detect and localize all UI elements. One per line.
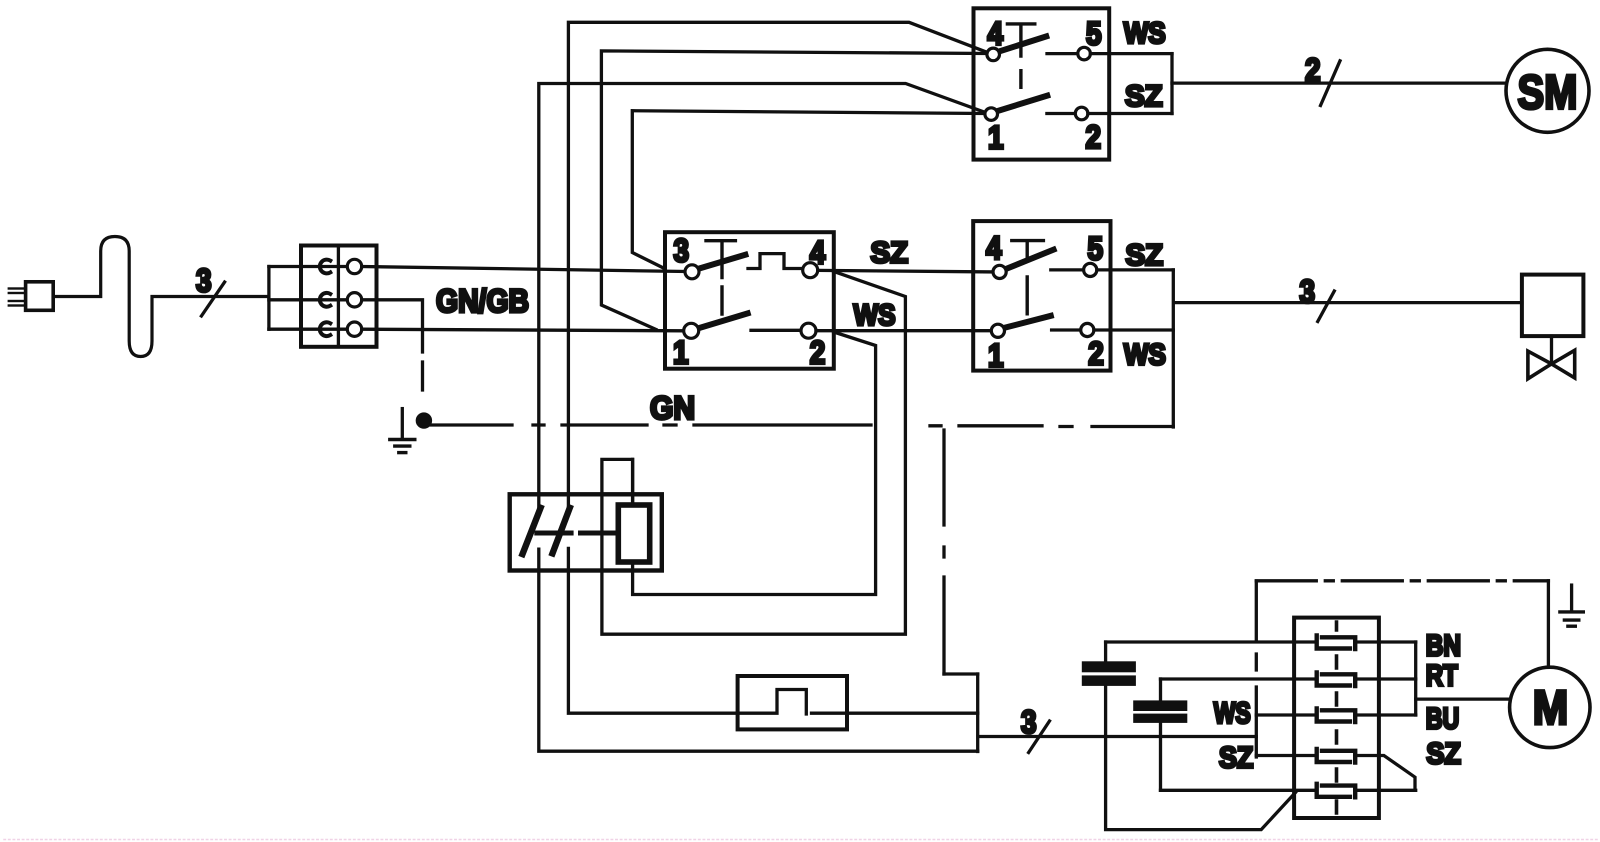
suppressor switch blade 2	[553, 508, 570, 554]
svg-text:SZ: SZ	[1125, 80, 1163, 113]
wire RT row	[1161, 677, 1416, 680]
label 3-core valve cable mark	[1300, 273, 1335, 321]
wire SZ S2 pin4 to S3 pin4	[818, 270, 993, 272]
suppressor link bar	[537, 531, 571, 536]
svg-text:5: 5	[1088, 231, 1104, 267]
wire PE row to terminal	[269, 298, 348, 301]
connector contact 5	[1317, 784, 1356, 798]
wire N feed to timer switch contact 1	[362, 329, 684, 331]
svg-text:2: 2	[1088, 336, 1104, 372]
svg-text:SZ: SZ	[1426, 738, 1461, 771]
svg-text:3: 3	[674, 233, 690, 269]
connector contact 1	[1317, 636, 1356, 650]
wire 2-core cable to SM	[1172, 81, 1508, 84]
wire C2 bottom lead to connector row5	[1106, 686, 1296, 830]
wire 3-core cable to motor group	[978, 735, 1256, 738]
timer/program module box	[738, 676, 847, 729]
ground symbol at motor frame	[1560, 585, 1583, 626]
wire C3 bottom lead to row5	[1159, 723, 1162, 790]
S3 contact 4	[993, 265, 1006, 278]
S3 upper fixed lead	[1051, 268, 1084, 271]
svg-text:1: 1	[988, 337, 1004, 373]
wire SZ row with dogleg	[1256, 756, 1415, 791]
S1 upper fixed lead	[1047, 52, 1078, 55]
wire S3 pin2 to valve cable bracket	[1094, 328, 1173, 331]
label 3-core motor cable mark	[1021, 704, 1050, 753]
svg-text:GN/GB: GN/GB	[436, 283, 529, 319]
svg-text:3: 3	[196, 262, 212, 298]
svg-text:M: M	[1533, 682, 1569, 735]
svg-text:2: 2	[810, 335, 826, 371]
label 3-core cable mark	[196, 262, 225, 316]
S2 contact 4	[803, 263, 818, 278]
label 2-core cable mark	[1305, 52, 1340, 106]
svg-text:SZ: SZ	[1219, 742, 1253, 775]
S1 lower fixed lead	[1047, 112, 1075, 115]
terminal circle row3	[347, 322, 361, 336]
S3 contact 2	[1081, 323, 1094, 336]
S1 lower moving contact 1	[985, 108, 998, 121]
S2 contact 2	[801, 323, 816, 338]
wire loop C: main switch contact 1 down to bottom cable line	[539, 84, 986, 752]
main switch S1 box	[974, 8, 1110, 159]
mains plug X1	[8, 282, 54, 311]
S2 actuator button	[706, 241, 735, 314]
S3 actuator button	[1012, 241, 1044, 314]
connector contact 3	[1317, 709, 1356, 723]
wire GN dash-dot run to right	[431, 425, 1173, 427]
wire 3-core cable to valve	[1175, 301, 1522, 304]
S1 upper contact arm	[999, 36, 1046, 51]
svg-text:2: 2	[1086, 119, 1102, 155]
S3 lower contact arm	[1004, 316, 1051, 328]
svg-text:3: 3	[1021, 704, 1037, 740]
wire GN/GB earth drop (dash-dot)	[362, 300, 423, 390]
svg-text:3: 3	[1300, 273, 1316, 309]
connector contact 4	[1317, 749, 1356, 763]
svg-text:BU: BU	[1426, 702, 1460, 735]
capacitor C1 (suppressor)	[618, 505, 649, 562]
S2 pin2 fixed lead	[751, 329, 801, 332]
node cable fan-out bracket at terminal block	[267, 267, 270, 330]
wire C2 top lead to BN row	[1104, 642, 1107, 661]
svg-text:WS: WS	[854, 299, 896, 332]
svg-text:SZ: SZ	[1126, 239, 1164, 272]
svg-text:1: 1	[673, 335, 689, 371]
svg-text:WS: WS	[1214, 697, 1251, 730]
S3 upper contact arm	[1006, 250, 1054, 269]
motor frame dash-dot boundary left	[1255, 581, 1258, 670]
terminal hook pin row3	[320, 322, 330, 336]
wire WS S2 pin2 to S3 pin1	[816, 329, 991, 332]
node earth junction	[416, 412, 432, 428]
S3 lower fixed lead	[1052, 328, 1081, 331]
wire motor earth to M	[1547, 581, 1550, 668]
S1 upper moving contact 4	[987, 48, 1000, 61]
wire C3 top lead to RT row	[1159, 679, 1162, 700]
terminal circle row1	[347, 259, 361, 273]
terminal circle row2	[347, 293, 361, 307]
svg-text:GN: GN	[650, 390, 695, 426]
S2 contact 3	[685, 265, 699, 279]
wire L feed to timer switch contact 3	[362, 267, 685, 272]
S2 contact 1	[684, 323, 699, 338]
svg-text:2: 2	[1305, 52, 1321, 88]
wire GN dash-dot branch down to motor cable	[942, 430, 945, 674]
connector contact 2	[1317, 673, 1356, 687]
wire loop D: main switch contact 1 down to timer switch contact 3	[632, 111, 985, 268]
svg-text:4: 4	[988, 16, 1004, 52]
node motor cable bracket	[1255, 687, 1258, 757]
timer switch S2 box	[665, 232, 834, 369]
wire L row to terminal	[269, 265, 348, 268]
S1 lower contact arm	[997, 96, 1048, 112]
S3 contact 5	[1084, 263, 1097, 276]
wire S3 pin5 to valve cable bracket	[1097, 268, 1173, 271]
terminal block X2	[301, 246, 377, 347]
wire S1 pin2 to cable bracket	[1088, 112, 1172, 115]
svg-text:WS: WS	[1124, 17, 1166, 50]
S1 contact 2	[1075, 107, 1088, 120]
motor SM (program/servo motor)	[1506, 49, 1589, 132]
terminal hook pin row2	[320, 293, 330, 307]
ground PE symbol	[390, 409, 415, 453]
S1 contact 5	[1078, 47, 1091, 60]
S2 pulse cam symbol and pin4 lead	[748, 254, 803, 269]
S2 upper contact arm	[699, 255, 746, 269]
svg-text:BN: BN	[1426, 630, 1461, 663]
S1 actuator button	[1007, 24, 1034, 87]
capacitor C2	[1082, 661, 1136, 686]
svg-text:5: 5	[1086, 15, 1102, 51]
interference suppressor box	[510, 494, 662, 570]
wire right bus BN/RT/BU	[1414, 642, 1417, 715]
suppressor link dash to capacitor	[581, 531, 616, 536]
wire S1 pin5 to cable bracket	[1090, 52, 1172, 55]
svg-text:RT: RT	[1426, 660, 1458, 693]
suppressor loop wiring (S2 outputs to capacitor)	[602, 272, 906, 635]
solenoid valve Y1	[1522, 275, 1584, 379]
wire loop B: main switch contact 4 down to timer switch contact 1	[601, 51, 987, 330]
suppressor switch blade 1	[523, 508, 541, 554]
svg-text:1: 1	[988, 120, 1004, 156]
svg-text:SM: SM	[1518, 66, 1578, 119]
wire motor feed	[1416, 697, 1510, 700]
wire WS/BU row	[1256, 713, 1415, 716]
wire mains cord with strain loop	[53, 237, 269, 357]
node 2-wire cable bracket	[1170, 54, 1173, 114]
wire row5	[1161, 789, 1416, 792]
wire loop A: main switch contact 4 down to timer line (with pulse step)	[568, 22, 987, 714]
svg-text:SZ: SZ	[871, 237, 909, 270]
wire BN row	[1106, 640, 1416, 643]
S2 lower contact arm	[698, 313, 747, 328]
capacitor C3	[1133, 700, 1187, 722]
motor frame dash-dot boundary top	[1256, 579, 1548, 582]
wire capacitor branch vertical	[631, 459, 634, 505]
scan artifact baseline	[4, 839, 1600, 841]
motor M	[1510, 667, 1590, 747]
motor connector block	[1294, 618, 1379, 818]
svg-text:WS: WS	[1124, 339, 1166, 372]
node 3-wire bottom cable bracket	[976, 674, 979, 752]
wire N row to terminal	[269, 328, 348, 331]
S3 contact 1	[991, 324, 1004, 337]
svg-text:4: 4	[986, 230, 1002, 266]
selector switch S3 box	[973, 221, 1110, 371]
node 3-wire valve cable bracket	[1172, 270, 1175, 427]
wire GN elbow into cable bracket	[944, 672, 978, 675]
connector mechanical dashed axis	[1335, 622, 1339, 813]
terminal hook pin row1	[320, 260, 330, 274]
